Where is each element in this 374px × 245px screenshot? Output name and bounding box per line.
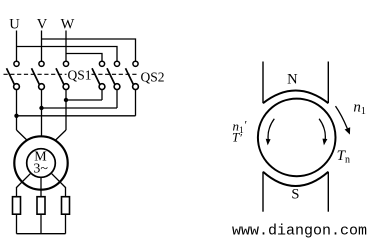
rotor arrow right — [319, 119, 327, 146]
svg-text:N: N — [287, 71, 298, 87]
motor lead right — [52, 174, 66, 188]
stator pole S left edge — [262, 172, 264, 212]
svg-text:QS2: QS2 — [141, 69, 165, 84]
svg-text:V: V — [37, 16, 48, 32]
resistor R2 (middle) — [37, 197, 45, 215]
motor M outer circle — [14, 136, 67, 189]
wire cross bus W-QS2p1 — [66, 99, 102, 101]
stator pole N right edge — [327, 62, 329, 104]
wire QS2 pole 1 down — [101, 90, 103, 101]
switch QS2 pole 3 — [126, 61, 139, 89]
wire QS1 pole 1 down — [16, 90, 18, 131]
wire V bus to QS2 pole 3 — [42, 39, 136, 61]
motor lead middle — [40, 177, 42, 196]
wire below R1 — [16, 214, 18, 234]
svg-text:3~: 3~ — [33, 161, 48, 176]
svg-text:U: U — [9, 16, 20, 32]
wire below R2 — [40, 214, 42, 234]
junction dot at pole2 bus — [39, 106, 43, 110]
wire QS2 pole 2 down — [116, 90, 118, 109]
motor lead left — [17, 174, 31, 188]
wire QS2 pole 3 down — [135, 90, 137, 116]
junction dot at pole1 bus — [14, 114, 18, 118]
switch QS2 pole 2 — [107, 61, 120, 89]
wire QS1 pole 3 down — [65, 90, 67, 131]
stator pole N left edge — [262, 62, 264, 104]
svg-text:QS1: QS1 — [68, 67, 92, 82]
wire right lead down — [65, 187, 67, 197]
resistor R3 (right) — [62, 197, 70, 215]
svg-text:www.diangon.com: www.diangon.com — [232, 223, 367, 240]
motor M inner circle — [27, 149, 56, 178]
QS2 mechanical link (dashed) — [92, 73, 139, 75]
wire W bus to QS2 pole 1 — [66, 54, 102, 62]
QS1 mechanical link (dashed) — [4, 73, 67, 75]
switch QS2 pole 1 — [92, 61, 105, 89]
wire V vertical to QS1 pole 2 — [41, 31, 43, 62]
svg-text:S: S — [291, 187, 299, 203]
svg-text:n1: n1 — [353, 100, 366, 118]
switch QS1 pole 1 — [7, 61, 20, 89]
wire slant into motor right — [55, 130, 66, 141]
wire left lead down — [16, 187, 18, 197]
rotor circle — [258, 99, 336, 177]
svg-text:T′: T′ — [232, 130, 242, 145]
wire slant into motor left — [17, 130, 28, 140]
wire cross bus U-QS2p3 — [17, 115, 136, 117]
resistor R1 (left) — [13, 197, 21, 215]
wire QS1 pole 2 down — [41, 90, 43, 136]
stator pole S face arc — [263, 172, 328, 186]
svg-text:W: W — [61, 16, 75, 32]
arrow n1 (field rotation) — [336, 106, 351, 135]
svg-text:Tn: Tn — [337, 148, 350, 166]
stator pole S right edge — [327, 172, 329, 212]
stator pole N face arc — [263, 91, 328, 104]
wire W vertical to QS1 pole 3 — [65, 31, 67, 62]
switch QS1 pole 3 — [56, 61, 69, 89]
rotor arrow left — [266, 119, 275, 146]
wire below R3 — [65, 214, 67, 234]
wire U bus to QS2 pole 2 — [17, 47, 118, 62]
wire U vertical to QS1 pole 1 — [16, 31, 18, 62]
switch QS1 pole 2 — [32, 61, 45, 89]
wire star point bus — [17, 233, 66, 235]
wire cross bus V-QS2p2 — [42, 107, 118, 109]
junction dot at pole3 bus — [64, 98, 68, 102]
